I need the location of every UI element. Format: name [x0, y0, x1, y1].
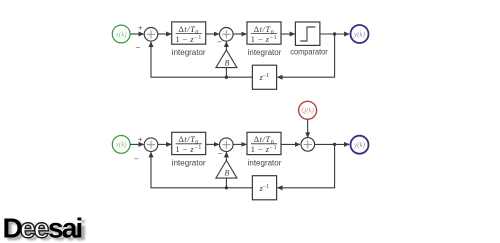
wire S3 to integrator block B3	[158, 143, 171, 145]
wire B3 to summer S4	[206, 143, 219, 145]
node x(k) input (green)	[112, 25, 130, 43]
node y(k) output 2 (navy)	[351, 136, 369, 154]
svg-text:y(k): y(k)	[353, 141, 366, 149]
wire J4 up to amplifier beta2	[225, 178, 227, 188]
svg-text:integrator: integrator	[248, 48, 282, 57]
svg-text:−: −	[134, 154, 139, 163]
summer S2	[220, 28, 234, 42]
amplifier beta2 (triangle)	[216, 160, 237, 178]
wire feedback down from J1 to z-1	[277, 34, 334, 77]
summer S4	[220, 138, 234, 152]
junction J1	[333, 32, 336, 35]
node Q(k) quantization noise (red)	[299, 101, 317, 119]
wire x(k) to summer S3	[130, 143, 143, 145]
wire x(k) to summer S1	[130, 33, 143, 35]
block B4 integrator	[247, 132, 281, 154]
svg-text:integrator: integrator	[172, 159, 206, 168]
logo Deesai shadow	[6, 215, 86, 243]
wire S2 to integrator block B2	[233, 33, 246, 35]
svg-text:+: +	[138, 135, 143, 144]
wire B4 to summer S5	[281, 143, 300, 145]
node y(k) output (navy)	[351, 25, 369, 43]
wire feedback down from J3 to z-1	[277, 144, 334, 187]
svg-text:sai: sai	[48, 213, 82, 243]
junction J2 on feedback	[225, 76, 228, 79]
wire B1 to summer S2	[206, 33, 219, 35]
wire beta2 apex to S4	[225, 152, 227, 160]
summer S3	[144, 138, 158, 152]
wire z-1 to S1 feedback	[151, 42, 252, 77]
wire S5 to y(k)	[315, 143, 350, 145]
svg-text:−: −	[217, 38, 222, 47]
svg-text:Q(k): Q(k)	[301, 107, 314, 115]
wire S4 to integrator block B4	[233, 143, 246, 145]
wire B2 to comparator	[281, 33, 295, 35]
svg-text:ee: ee	[20, 213, 49, 243]
node x(k) input 2 (green)	[112, 136, 130, 154]
logo Deesai	[3, 213, 82, 243]
wire comparator to y(k)	[320, 33, 349, 35]
comparator block U1	[295, 22, 320, 45]
svg-text:−: −	[218, 149, 223, 158]
svg-text:integrator: integrator	[172, 48, 206, 57]
summer S1	[144, 28, 158, 42]
svg-text:+: +	[138, 24, 143, 33]
wire z-1 to S3 feedback	[151, 152, 252, 188]
block B3 integrator	[172, 132, 206, 154]
block B2 integrator	[247, 22, 281, 44]
block D2 z^-1	[252, 176, 276, 200]
svg-text:comparator: comparator	[290, 47, 328, 56]
svg-text:y(k): y(k)	[353, 30, 366, 38]
svg-text:x(k): x(k)	[115, 30, 128, 38]
wire S1 to integrator block B1	[158, 33, 171, 35]
svg-text:integrator: integrator	[248, 159, 282, 168]
block D1 z^-1	[252, 65, 276, 89]
junction J4 on feedback	[225, 186, 228, 189]
block B1 integrator	[172, 22, 206, 44]
junction J3	[333, 143, 336, 146]
svg-text:−: −	[136, 43, 141, 52]
wire beta apex to S2	[225, 42, 227, 50]
amplifier beta (triangle)	[216, 50, 237, 68]
wire Q(k) down to summer S5	[307, 119, 309, 137]
summer S5	[301, 138, 315, 152]
svg-text:B: B	[225, 58, 230, 67]
svg-text:B: B	[225, 169, 230, 178]
svg-text:x(k): x(k)	[115, 141, 128, 149]
wire J2 up to amplifier beta	[225, 68, 227, 78]
